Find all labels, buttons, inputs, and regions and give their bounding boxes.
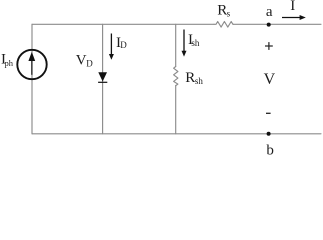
- current source Iph circle: [17, 50, 46, 79]
- arrow Ish: [182, 30, 187, 57]
- wire Rsh branch upper: [175, 24, 177, 66]
- svg-text:b: b: [266, 142, 274, 156]
- svg-text:D: D: [86, 59, 93, 69]
- svg-text:sh: sh: [195, 76, 204, 86]
- node a: [267, 23, 271, 27]
- wire left branch (current source): [31, 24, 33, 134]
- minus sign: [266, 112, 271, 114]
- current source arrow: [28, 52, 35, 75]
- svg-text:ph: ph: [5, 58, 14, 68]
- wire Rsh branch lower: [175, 86, 177, 134]
- node b: [267, 132, 271, 136]
- wire bottom: [32, 133, 321, 135]
- arrow I (output current): [282, 15, 306, 20]
- svg-text:s: s: [227, 9, 231, 19]
- wire diode branch: [102, 24, 104, 134]
- resistor Rs zigzag: [214, 22, 234, 28]
- arrow ID: [109, 34, 114, 60]
- diode D: [98, 72, 107, 83]
- svg-text:V: V: [76, 52, 87, 68]
- svg-text:R: R: [185, 70, 195, 86]
- svg-text:D: D: [120, 40, 127, 50]
- svg-text:I: I: [290, 0, 295, 14]
- wire top-right segment: [234, 23, 321, 25]
- resistor Rsh zigzag: [174, 67, 178, 86]
- svg-text:V: V: [264, 71, 276, 88]
- wire top-left segment: [32, 23, 214, 25]
- svg-text:sh: sh: [191, 38, 200, 48]
- svg-text:a: a: [266, 4, 273, 20]
- plus sign: [265, 42, 273, 50]
